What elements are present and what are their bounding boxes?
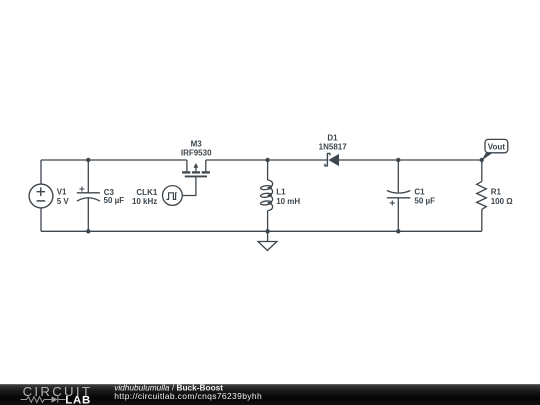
svg-text:V1: V1 xyxy=(57,188,67,197)
svg-text:http://circuitlab.com/cnqs7623: http://circuitlab.com/cnqs76239byhh xyxy=(114,391,262,401)
svg-text:CLK1: CLK1 xyxy=(136,188,157,197)
svg-text:IRF9530: IRF9530 xyxy=(181,148,212,157)
svg-text:1N5817: 1N5817 xyxy=(319,143,348,152)
svg-text:50 µF: 50 µF xyxy=(414,197,435,206)
svg-text:L1: L1 xyxy=(276,187,286,196)
svg-text:10 mH: 10 mH xyxy=(276,197,300,206)
svg-text:LAB: LAB xyxy=(65,395,91,405)
svg-text:D1: D1 xyxy=(327,134,338,143)
svg-text:C1: C1 xyxy=(414,187,425,196)
svg-text:10 kHz: 10 kHz xyxy=(132,197,157,206)
svg-text:R1: R1 xyxy=(491,188,502,197)
svg-text:50 µF: 50 µF xyxy=(104,196,125,205)
svg-text:Vout: Vout xyxy=(488,142,506,151)
svg-text:100 Ω: 100 Ω xyxy=(491,197,514,206)
svg-text:5 V: 5 V xyxy=(57,197,70,206)
